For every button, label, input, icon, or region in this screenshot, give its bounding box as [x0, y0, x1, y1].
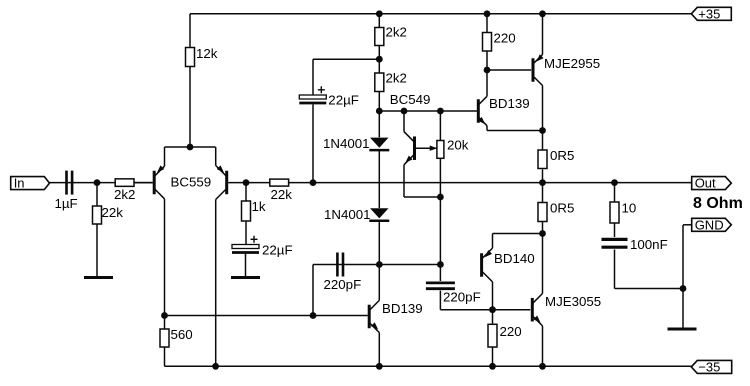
- svg-text:1µF: 1µF: [55, 196, 78, 211]
- svg-text:BD139: BD139: [382, 301, 423, 316]
- svg-text:8 Ohm: 8 Ohm: [693, 195, 743, 212]
- svg-text:220: 220: [500, 324, 522, 339]
- svg-text:100nF: 100nF: [630, 237, 668, 252]
- svg-text:0R5: 0R5: [550, 201, 574, 216]
- svg-text:1k: 1k: [252, 199, 266, 214]
- svg-text:Out: Out: [695, 176, 716, 191]
- svg-text:BD139: BD139: [489, 96, 530, 111]
- svg-text:22µF: 22µF: [328, 92, 359, 107]
- svg-text:20k: 20k: [447, 138, 469, 153]
- svg-text:22µF: 22µF: [262, 243, 293, 258]
- svg-text:BC559: BC559: [171, 175, 212, 190]
- svg-text:1N4001: 1N4001: [324, 207, 371, 222]
- svg-text:2k2: 2k2: [114, 187, 135, 202]
- svg-text:2k2: 2k2: [386, 70, 407, 85]
- svg-text:12k: 12k: [196, 46, 218, 61]
- svg-text:In: In: [14, 176, 25, 191]
- svg-text:+35: +35: [698, 6, 720, 21]
- svg-text:MJE2955: MJE2955: [544, 56, 600, 71]
- svg-text:220pF: 220pF: [443, 290, 481, 305]
- svg-text:560: 560: [171, 327, 193, 342]
- svg-text:BC549: BC549: [390, 92, 431, 107]
- svg-text:10: 10: [622, 200, 637, 215]
- svg-text:22k: 22k: [271, 187, 293, 202]
- svg-text:2k2: 2k2: [386, 25, 407, 40]
- svg-text:220pF: 220pF: [324, 277, 362, 292]
- svg-text:0R5: 0R5: [550, 148, 574, 163]
- svg-text:1N4001: 1N4001: [323, 136, 370, 151]
- svg-text:MJE3055: MJE3055: [545, 294, 601, 309]
- svg-text:22k: 22k: [102, 205, 124, 220]
- svg-text:220: 220: [494, 30, 516, 45]
- svg-text:−35: −35: [698, 359, 720, 374]
- svg-text:GND: GND: [695, 217, 724, 232]
- svg-text:BD140: BD140: [494, 251, 535, 266]
